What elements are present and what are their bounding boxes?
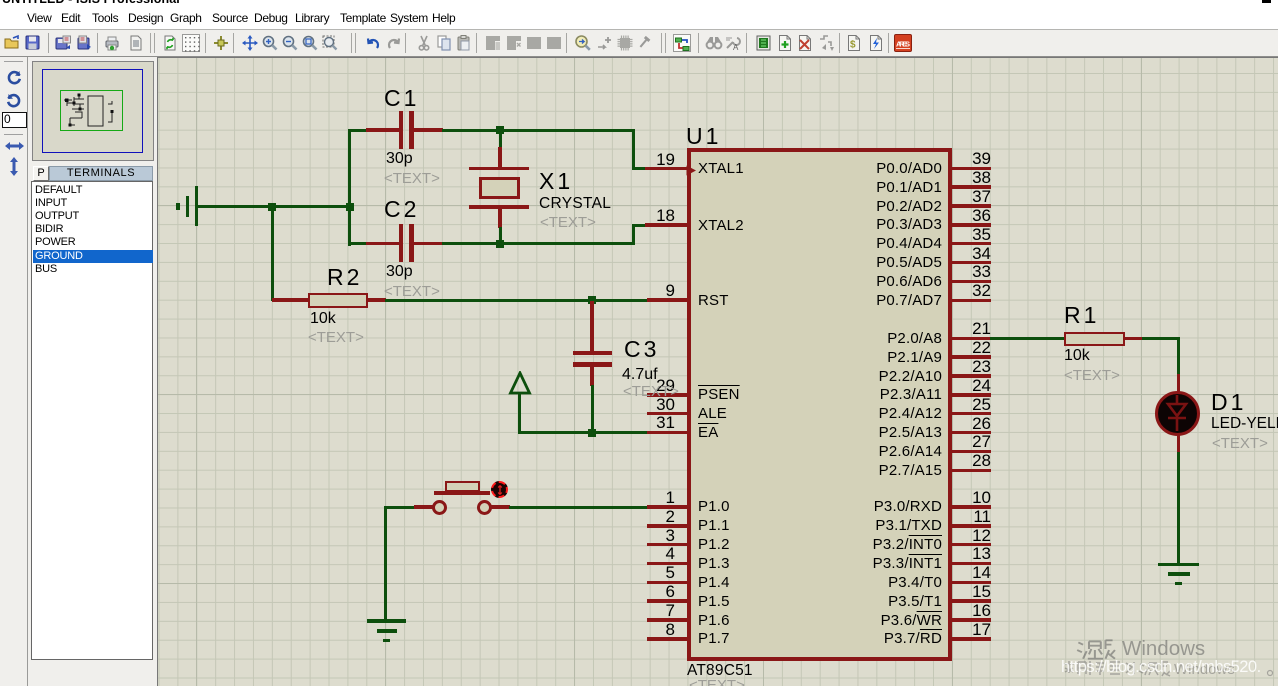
svg-text:A: A — [733, 43, 739, 52]
svg-text:Windows: Windows — [1122, 637, 1205, 660]
svg-text:ARES: ARES — [896, 40, 910, 49]
svg-text:$: $ — [850, 40, 856, 51]
